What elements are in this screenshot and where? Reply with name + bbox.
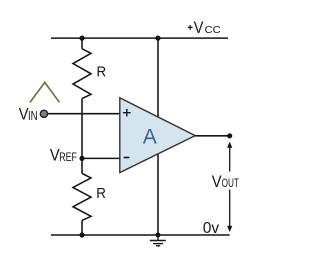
- source VIN waveform icon: [30, 82, 60, 102]
- svg-text:0v: 0v: [203, 220, 220, 237]
- op-amp + input marking: [123, 109, 131, 117]
- svg-text:OUT: OUT: [222, 176, 240, 190]
- svg-text:CC: CC: [205, 24, 221, 36]
- node: junction top rail / power line: [155, 36, 160, 41]
- op-amp U1: [120, 98, 195, 173]
- svg-text:A: A: [143, 125, 157, 148]
- label VREF: [50, 145, 77, 164]
- wire: VIN to + input: [48, 113, 120, 115]
- wire: divider top stub: [81, 38, 83, 49]
- svg-text:IN: IN: [28, 109, 38, 123]
- label VIN: [19, 105, 38, 124]
- wire: bottom 0v rail: [51, 234, 230, 236]
- node: junction top rail / divider: [79, 36, 84, 41]
- wire: top +Vcc rail: [51, 37, 228, 39]
- wire: divider middle (crosses Vin line, no junction): [81, 99, 83, 159]
- wire: VREF to - input: [82, 157, 120, 159]
- node: junction bottom rail / divider: [79, 232, 84, 237]
- op-amp - input marking: [124, 157, 130, 159]
- wire: vertical power line: [157, 38, 159, 235]
- svg-text:R: R: [97, 63, 107, 80]
- node: output: [227, 133, 232, 138]
- node VREF: [79, 156, 84, 161]
- wire: R2 to bottom rail: [81, 220, 83, 235]
- label +VCC: [188, 18, 221, 37]
- ground: [150, 235, 166, 246]
- svg-text:V: V: [194, 18, 204, 37]
- label VOUT: [212, 172, 240, 191]
- svg-text:R: R: [96, 185, 106, 202]
- terminal VIN: [40, 110, 47, 117]
- wire: VREF to R2: [81, 158, 83, 173]
- resistor R2: [73, 173, 91, 220]
- resistor R1: [73, 49, 91, 99]
- svg-text:REF: REF: [59, 150, 77, 164]
- node: junction bottom rail / power line: [156, 233, 161, 238]
- wire: output: [195, 135, 230, 137]
- arrow VOUT (double headed): [227, 142, 232, 232]
